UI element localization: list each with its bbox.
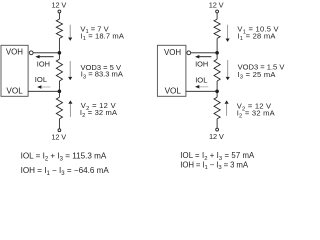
svg-text:I3 = 83.3 mA: I3 = 83.3 mA [81, 70, 124, 81]
svg-text:IOL = I2 + I3 = 115.3 mA: IOL = I2 + I3 = 115.3 mA [21, 151, 107, 162]
wire R3 to node B (left) [58, 81, 60, 97]
current arrow IOH (right) [195, 55, 211, 59]
svg-text:VOH: VOH [164, 48, 181, 57]
terminal 12V top (right) [216, 10, 219, 13]
current arrow I1 down (left) [68, 25, 72, 41]
svg-text:12 V: 12 V [209, 1, 224, 10]
svg-text:IOH: IOH [37, 59, 50, 68]
resistor R2 (right pull-down) [214, 97, 220, 119]
current arrow IOL grey (left) [37, 85, 50, 89]
current arrow I1 down (right) [226, 25, 230, 42]
svg-text:IOH = I1 − I3 = 3 mA: IOH = I1 − I3 = 3 mA [180, 160, 249, 171]
wire terminal to R1 (right) [216, 13, 218, 19]
svg-text:12 V: 12 V [51, 133, 66, 142]
resistor R1 (right pull-up) [214, 19, 220, 38]
wire VOH to node A (left) [33, 52, 59, 54]
current arrow I3 down (right) [226, 60, 230, 80]
resistor R2 (left pull-down) [56, 97, 62, 119]
terminal 12V bottom (right) [216, 128, 219, 131]
svg-text:IOL: IOL [195, 76, 207, 85]
node A junction dot (left) [58, 51, 62, 55]
svg-text:I2 = 32 mA: I2 = 32 mA [237, 109, 276, 120]
terminal 12V top (left) [58, 10, 61, 13]
terminal 12V bottom (left) [58, 129, 61, 132]
current arrow IOH (left) [35, 55, 53, 59]
resistor R3 (right middle) [214, 59, 220, 81]
wire R2 to bottom terminal (left) [58, 119, 60, 129]
wire R3 to node B (right) [216, 81, 218, 97]
svg-text:12 V: 12 V [209, 132, 224, 141]
node A junction dot (right) [215, 51, 219, 55]
current arrow I2 up (right) [225, 100, 229, 115]
resistor R1 (left pull-up) [56, 19, 62, 38]
svg-text:VOL: VOL [6, 86, 23, 95]
current arrow IOL grey (right) [195, 85, 208, 89]
inverter bubble on VOH output (left) [29, 51, 33, 55]
svg-text:I2 = 32 mA: I2 = 32 mA [80, 108, 118, 119]
svg-text:12 V: 12 V [52, 1, 67, 10]
node B junction dot (left) [58, 90, 62, 94]
svg-text:I1 = 18.7 mA: I1 = 18.7 mA [81, 31, 125, 42]
svg-text:IOH: IOH [195, 60, 208, 69]
inverter bubble on VOH output (right) [187, 51, 191, 55]
svg-text:IOL: IOL [35, 75, 47, 84]
current arrow I2 up (left) [68, 100, 72, 117]
driver U2 box (right) [157, 45, 186, 96]
svg-text:VOH: VOH [6, 48, 23, 57]
svg-text:IOH = I1 − I3 = −64.6 mA: IOH = I1 − I3 = −64.6 mA [21, 166, 110, 177]
svg-text:I3 = 25 mA: I3 = 25 mA [237, 70, 276, 81]
wire terminal to R1 (left) [58, 13, 60, 19]
current arrow I3 down (left) [68, 61, 72, 80]
driver U1 box (left) [1, 45, 28, 96]
node B junction dot (right) [215, 90, 219, 94]
svg-text:I1 = 28 mA: I1 = 28 mA [237, 31, 276, 42]
wire VOL to node B (left) [28, 90, 59, 92]
wire R1 to node A (right) [216, 38, 218, 59]
wire VOL to node B (right) [186, 90, 217, 92]
wire R1 to node A (left) [58, 38, 60, 59]
resistor R3 (left middle) [56, 59, 62, 81]
wire VOH to node A (right) [191, 52, 217, 54]
wire R2 to bottom terminal (right) [216, 119, 218, 128]
svg-text:VOL: VOL [165, 86, 182, 95]
